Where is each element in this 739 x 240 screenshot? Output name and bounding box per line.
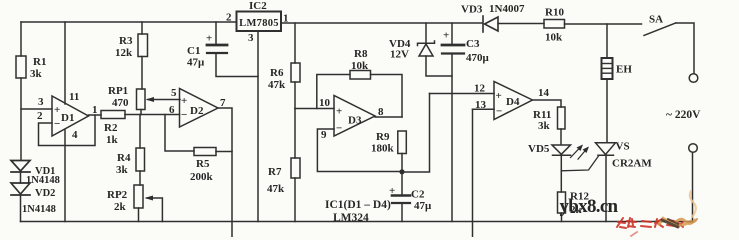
svg-text:470: 470: [112, 97, 129, 109]
terminal circle top: [689, 74, 698, 83]
svg-text:D3: D3: [348, 115, 362, 127]
resistor R12: [558, 191, 590, 222]
resistor R4: [116, 115, 145, 186]
svg-text:10: 10: [319, 97, 331, 109]
svg-text:+: +: [443, 30, 449, 42]
wire VD2 to rail: [20, 195, 22, 222]
resistor R11: [533, 107, 565, 145]
wire IC2 pin3 ground: [257, 31, 259, 222]
svg-text:R6: R6: [270, 67, 284, 79]
svg-text:12k: 12k: [115, 47, 133, 59]
svg-text:1: 1: [283, 13, 289, 25]
svg-text:RP1: RP1: [108, 85, 128, 97]
svg-text:11: 11: [69, 91, 79, 103]
wire D2 output down across rail: [218, 108, 232, 237]
svg-text:R2: R2: [104, 122, 118, 134]
svg-text:R5: R5: [196, 158, 210, 170]
wire D3 pin9 feedback: [317, 129, 402, 172]
svg-text:+: +: [181, 95, 187, 107]
svg-text:+: +: [496, 90, 502, 102]
terminal circle bottom: [689, 144, 698, 153]
svg-text:1k: 1k: [106, 134, 119, 146]
svg-text:−: −: [336, 123, 342, 135]
diode VD3: [461, 3, 525, 32]
svg-text:8: 8: [378, 106, 384, 118]
svg-text:5: 5: [171, 87, 177, 99]
resistor R6: [268, 23, 300, 109]
wire terminal to ground rail: [692, 153, 694, 222]
svg-text:SA: SA: [649, 14, 663, 26]
wire D1 pin3: [21, 108, 52, 110]
wire R10 to switch: [565, 23, 642, 25]
svg-text:3: 3: [38, 96, 44, 108]
svg-text:C3: C3: [466, 38, 480, 50]
svg-text:2k: 2k: [114, 201, 127, 213]
svg-text:R4: R4: [117, 152, 131, 164]
svg-text:C1: C1: [187, 45, 200, 57]
heater EH: [602, 24, 633, 143]
svg-text:VD2: VD2: [35, 188, 55, 199]
node junction dot: [399, 169, 404, 174]
wire top-left 5V rail: [21, 21, 237, 23]
potentiometer RP1: [108, 85, 145, 115]
svg-text:D4: D4: [506, 96, 520, 108]
svg-text:1N4148: 1N4148: [26, 175, 60, 186]
wire D3 pin10: [295, 108, 334, 110]
wire R2 to D2 pin6: [125, 114, 180, 116]
wire D1 pin11 power: [64, 22, 66, 104]
resistor R1: [16, 56, 46, 80]
svg-text:3: 3: [248, 32, 254, 44]
capacitor C3: [442, 23, 490, 222]
wire VD1-VD2: [20, 172, 22, 183]
LED VD5: [528, 143, 589, 159]
svg-text:2: 2: [37, 110, 43, 122]
svg-text:47k: 47k: [267, 183, 285, 195]
wire D1 pin4 to ground rail: [64, 130, 66, 222]
svg-text:12: 12: [474, 83, 486, 95]
svg-text:D2: D2: [190, 105, 204, 117]
zener VD4: [389, 23, 452, 76]
red scribble watermark: [617, 218, 683, 228]
svg-text:~ 220V: ~ 220V: [666, 109, 701, 121]
svg-text:D1: D1: [61, 112, 74, 124]
svg-text:EH: EH: [616, 64, 632, 76]
svg-text:47k: 47k: [268, 79, 286, 91]
svg-text:−: −: [54, 118, 60, 130]
svg-text:3k: 3k: [30, 68, 43, 80]
wire bottom ground rail: [21, 221, 693, 223]
svg-text:−: −: [496, 106, 502, 118]
svg-text:R1: R1: [33, 56, 46, 68]
wire pin13 down across rail: [472, 109, 474, 237]
svg-text:LM7805: LM7805: [239, 18, 279, 29]
wire D3 output: [375, 116, 402, 118]
wire D4 pin12: [430, 93, 495, 95]
wire D4 output: [533, 100, 562, 107]
wire left column: [20, 22, 22, 56]
svg-text:RP2: RP2: [107, 189, 128, 201]
op-amp D1: [37, 91, 98, 141]
wire R5 right to D2 output: [216, 151, 232, 153]
svg-text:200k: 200k: [190, 171, 214, 183]
svg-text:1: 1: [92, 104, 98, 116]
svg-text:180k: 180k: [371, 143, 395, 155]
svg-text:LM324: LM324: [333, 212, 369, 224]
svg-text:+: +: [54, 104, 60, 116]
resistor R10: [544, 7, 565, 44]
capacitor C1: [187, 22, 258, 77]
wire D4 pin13: [473, 108, 495, 110]
wire D1 feedback out to pin2: [39, 115, 96, 146]
diode VD2: [11, 183, 56, 215]
svg-text:IC1(D1 – D4): IC1(D1 – D4): [325, 199, 391, 211]
svg-text:R10: R10: [545, 7, 564, 19]
op-amp D4: [474, 82, 550, 120]
svg-text:VD5: VD5: [528, 143, 550, 155]
wire top-right 12V rail: [281, 22, 483, 24]
svg-text:470μ: 470μ: [466, 52, 490, 64]
svg-text:R3: R3: [119, 35, 133, 47]
op-amp D2: [169, 87, 226, 127]
wire VD5 to R12: [560, 155, 562, 192]
dark pen stroke: [662, 219, 678, 227]
op-amp D3: [319, 96, 384, 142]
wire RP2 wiper to ground: [145, 196, 163, 222]
wire rail VD3 to R10: [498, 23, 544, 25]
svg-text:+: +: [336, 106, 342, 118]
svg-text:10k: 10k: [545, 32, 563, 44]
wire pin12 down to node: [402, 94, 430, 173]
resistor R2: [101, 111, 125, 147]
label IC1 LM324: [325, 199, 391, 224]
resistor R3: [115, 22, 148, 89]
svg-text:R9: R9: [376, 131, 390, 143]
svg-text:ybx8.cn: ybx8.cn: [560, 196, 619, 217]
svg-text:9: 9: [321, 129, 327, 141]
red scribble small: [631, 232, 637, 236]
svg-text:VS: VS: [616, 141, 630, 153]
svg-text:VD3: VD3: [461, 4, 483, 16]
svg-text:10k: 10k: [351, 60, 369, 72]
svg-text:6: 6: [169, 104, 175, 116]
svg-text:R7: R7: [268, 166, 282, 178]
wire RP1 wiper to D2 pin5: [146, 97, 181, 102]
resistor R8 feedback: [317, 48, 402, 117]
wire R1 to diodes: [20, 78, 22, 160]
resistor R5: [190, 148, 216, 184]
svg-text:14: 14: [538, 87, 550, 99]
orange scribble: [659, 191, 697, 225]
svg-text:47μ: 47μ: [187, 57, 205, 69]
svg-text:R8: R8: [354, 48, 368, 60]
svg-text:7: 7: [220, 97, 226, 109]
svg-text:+: +: [389, 185, 395, 197]
wire R5 left leg: [165, 115, 194, 152]
resistor R7: [267, 109, 300, 222]
svg-text:−: −: [181, 109, 187, 121]
svg-text:4: 4: [72, 129, 78, 141]
diode VD1: [11, 161, 60, 187]
svg-text:CR2AM: CR2AM: [612, 158, 652, 170]
wire D1 output: [89, 114, 102, 116]
svg-text:47μ: 47μ: [414, 200, 432, 212]
svg-text:3k: 3k: [116, 164, 129, 176]
potentiometer RP2: [107, 185, 143, 222]
svg-text:+: +: [206, 33, 212, 45]
svg-text:1N4007: 1N4007: [489, 3, 525, 15]
svg-text:C2: C2: [411, 189, 425, 201]
svg-text:1N4148: 1N4148: [22, 204, 56, 215]
svg-text:12V: 12V: [390, 49, 409, 61]
triac VS: [561, 141, 652, 222]
switch SA: [644, 14, 694, 74]
capacitor C2: [389, 172, 432, 222]
regulator IC2 LM7805: [226, 0, 289, 44]
svg-text:IC2: IC2: [249, 0, 267, 12]
resistor R9: [371, 131, 406, 172]
svg-text:2: 2: [226, 12, 232, 24]
svg-text:3k: 3k: [538, 120, 551, 132]
